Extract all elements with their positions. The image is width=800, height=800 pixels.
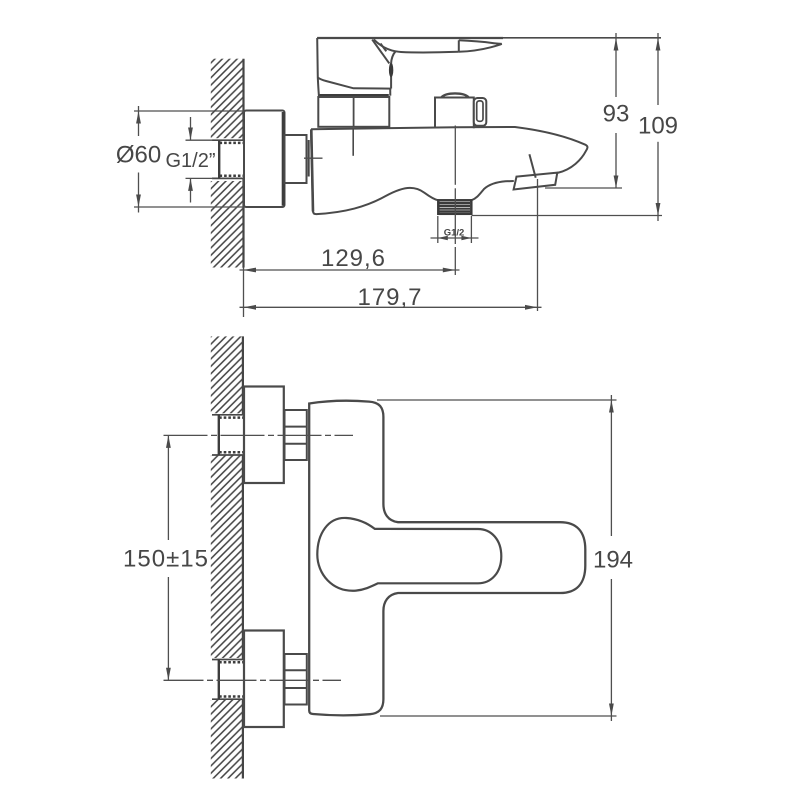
diverter pull ring [474,98,487,126]
wall (hatched) top section [211,59,244,139]
bottom threaded pipe in wall [212,660,244,700]
bottom nut, front view [285,654,307,705]
lever tip underside [459,44,502,52]
dim 129,6 line [240,269,460,271]
shower outlet (threaded) [438,200,471,214]
neck front edge [372,40,389,64]
faucet body + handle silhouette, front view [309,401,585,716]
cartridge line inside body [352,129,354,156]
dim Ø60 extension lines [134,110,244,112]
escutcheon (wall flange), side view [244,111,285,208]
top threaded pipe in wall [212,415,244,455]
dim G1/2 extension lines [186,139,214,141]
G1/2 threaded pipe in wall [212,140,245,178]
svg-text:Ø60: Ø60 [116,142,161,169]
svg-text:150±15: 150±15 [123,546,209,573]
svg-text:129,6: 129,6 [321,245,386,272]
handle grip inner outline, front view [317,518,501,591]
lever tip top line [459,40,502,44]
diverter knob [435,93,474,128]
wall face line [242,336,244,778]
dim 93 bottom extension [545,187,622,189]
svg-text:G1/2: G1/2 [444,228,465,239]
centerline through diverter and outlet [454,126,456,185]
neck right edge below fold [390,77,392,89]
wall (hatched) middle section [211,456,243,659]
wall face line [242,59,244,268]
small G1/2 dim line [431,237,479,239]
dim G1/2 lines/arrows [190,117,192,140]
top nut, front view [285,410,307,460]
inlet centerline [304,157,323,159]
dim 194 extension lines [377,399,617,401]
top escutcheon, front view [244,387,284,484]
top mount centerline [164,434,354,436]
bottom escutcheon, front view [244,631,284,728]
svg-text:179,7: 179,7 [357,284,422,311]
handle top edge / top extension line [317,37,661,39]
dim 109 line [657,33,659,105]
wall (hatched) bottom section [211,181,244,268]
neck cross line [381,44,387,52]
dim 93 line [615,33,617,97]
dim 194 line [610,395,612,536]
cartridge collar [318,96,389,127]
wall (hatched) upper section [211,336,243,413]
bottom mount centerline [164,679,342,681]
handle base left edge [317,38,319,96]
dim 179,7 extension (aerator) [537,179,539,311]
dim 129,6 extension (wall face) [243,268,245,318]
handle base cap bottom edge [318,78,392,89]
wall (hatched) lower section [211,700,243,779]
dim 109 bottom extension [472,215,663,217]
body underside right of outlet [471,181,514,200]
dim 150±15 line [167,435,169,540]
lever underside [374,40,459,53]
body left edge + bottom curve [311,130,313,212]
svg-text:109: 109 [638,113,678,140]
lever divider [458,40,460,52]
connection nut, side view [285,135,307,183]
svg-text:194: 194 [593,547,633,574]
blade underside curve into neck [391,51,395,63]
small G1/2 dim at outlet: extension lines [437,216,439,243]
inlet stub edge [308,140,310,177]
dim Ø60 line [138,106,140,136]
neck fold (dark lens) [389,63,393,77]
svg-text:93: 93 [603,101,630,128]
aerator edge line [529,154,535,178]
aerator block (angled) [514,173,558,190]
body top edge + spout [311,127,587,173]
handle stem right edge [389,89,391,96]
svg-text:G1/2”: G1/2” [165,150,215,172]
dim 179,7 line [240,306,542,308]
